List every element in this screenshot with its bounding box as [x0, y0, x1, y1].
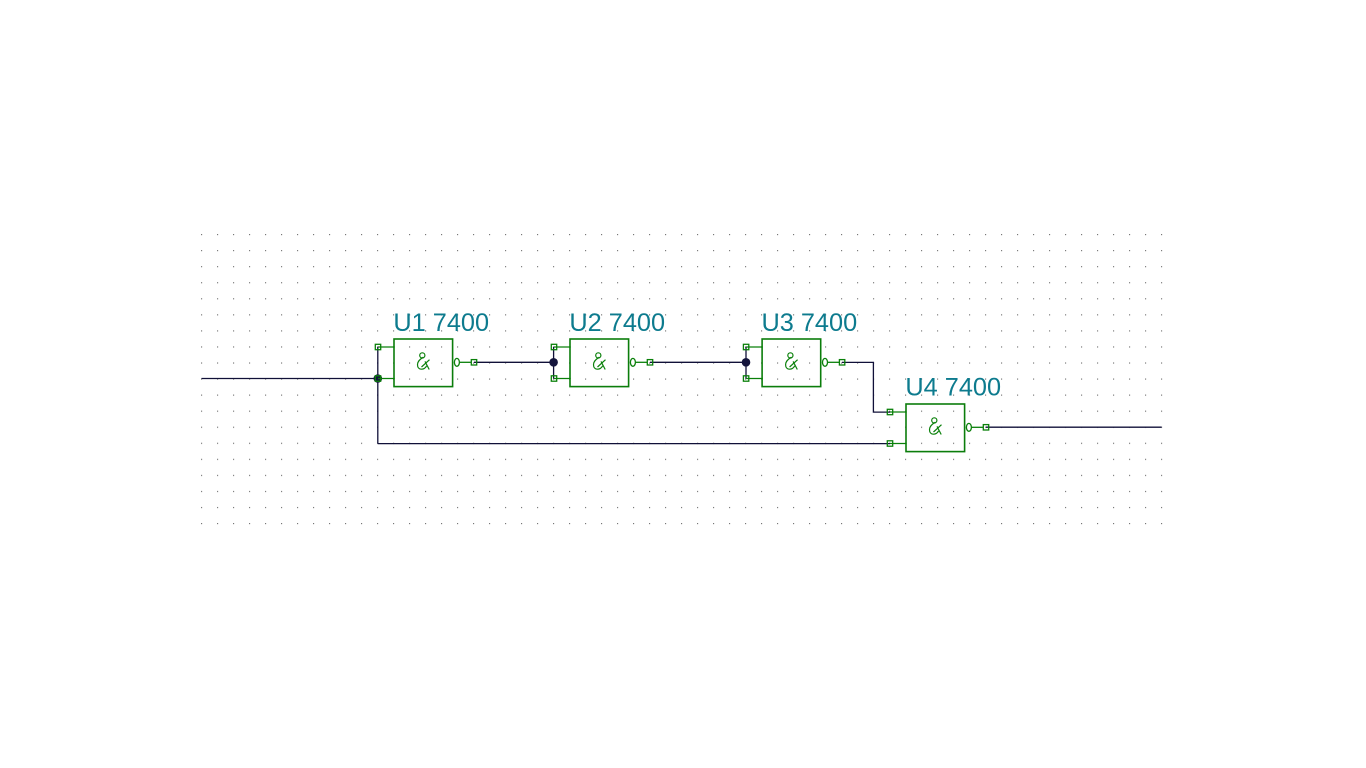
NAND gate U3 7400 — [743, 339, 844, 387]
svg-text:U1 7400: U1 7400 — [393, 309, 489, 337]
wire: U2 input vertical — [553, 347, 555, 379]
NAND gate U2 7400 — [551, 339, 652, 387]
wire: U3 input vertical — [745, 347, 747, 379]
junction node at U3 input — [742, 358, 751, 367]
wire: left input horizontal — [202, 378, 378, 380]
svg-text:U3 7400: U3 7400 — [762, 309, 858, 337]
wire: feedback bottom horizontal — [378, 443, 890, 445]
NAND gate U4 7400 — [887, 404, 988, 452]
svg-text:U2 7400: U2 7400 — [569, 309, 665, 337]
wire: U1 output to U2 — [474, 361, 554, 363]
junction node at U1 lower input — [374, 374, 383, 383]
NAND gate U1 7400 — [375, 339, 476, 387]
grid dot field — [201, 234, 1163, 525]
wire: U1 input vertical — [377, 347, 379, 444]
wire: U3 output to U4 top input (with corner) — [842, 362, 890, 412]
svg-text:U4 7400: U4 7400 — [905, 374, 1001, 402]
junction node at U2 input — [549, 358, 558, 367]
wire: U2 output to U3 — [650, 361, 746, 363]
wire: U4 output to right edge — [986, 426, 1162, 428]
